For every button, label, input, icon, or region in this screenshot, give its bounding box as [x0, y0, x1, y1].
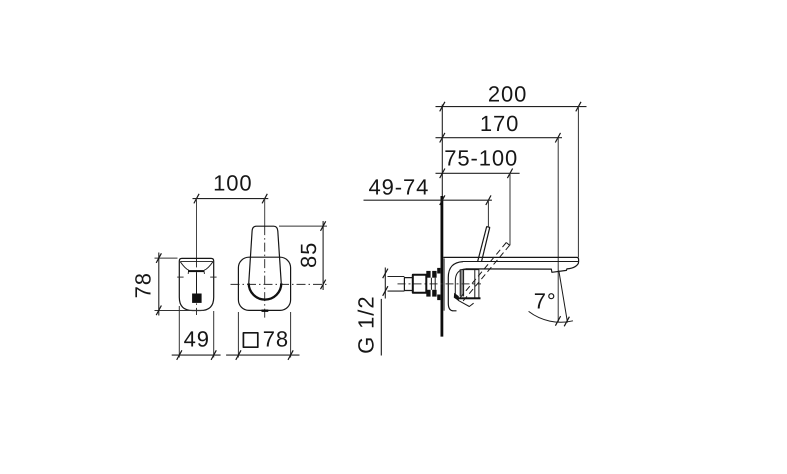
- dimension 49: [172, 306, 221, 360]
- hex nut small: [404, 278, 412, 291]
- spout second line: [463, 261, 578, 263]
- wall flange blocks: [437, 268, 440, 300]
- side view handle cup: [180, 261, 213, 274]
- side view handle stem: [196, 272, 198, 293]
- svg-text:170: 170: [480, 111, 519, 136]
- svg-text:100: 100: [213, 170, 252, 195]
- dimension 200: [436, 82, 587, 258]
- svg-text:49-74: 49-74: [369, 174, 430, 199]
- side view handle outline: [179, 258, 213, 310]
- svg-text:49: 49: [184, 326, 210, 351]
- inlet centerline: [398, 283, 482, 285]
- plate bottom center marker: [262, 310, 269, 312]
- svg-text:78: 78: [131, 272, 156, 298]
- 7 degree angle: [529, 271, 573, 327]
- set screw mark: [458, 300, 474, 306]
- dashed lever tip cap: [506, 243, 509, 246]
- escutcheon plate front: [238, 257, 290, 310]
- cartridge internals: [460, 270, 479, 298]
- spout outline: [443, 257, 578, 272]
- body outer contour and plate profile: [444, 258, 463, 311]
- svg-text:85: 85: [296, 242, 321, 268]
- side view pivot square: [192, 294, 202, 303]
- inner fillet: [455, 269, 465, 297]
- centerline side view: [196, 199, 198, 315]
- svg-text:7°: 7°: [534, 288, 557, 313]
- dimension 75-100: [436, 146, 520, 246]
- wall line: [441, 105, 443, 337]
- cartridge bottom bar: [454, 293, 481, 301]
- dimension square 78: [226, 312, 299, 360]
- G 1/2 dimension: [353, 268, 388, 356]
- union nut large: [413, 275, 427, 293]
- svg-text:200: 200: [488, 82, 527, 107]
- solid lever side view: [478, 227, 490, 262]
- horizontal centerline front view: [231, 283, 327, 285]
- side view horizontal centerline dashes: [177, 276, 216, 278]
- svg-text:75-100: 75-100: [444, 146, 518, 171]
- centerline front view: [264, 199, 266, 318]
- dimension 85: [279, 221, 327, 290]
- svg-text:G 1/2: G 1/2: [353, 296, 378, 354]
- dimension 100: [193, 170, 269, 203]
- dashed lever open position: [458, 243, 510, 304]
- svg-text:78: 78: [263, 326, 289, 351]
- thread blocks: [426, 271, 436, 297]
- lever front: [249, 226, 282, 299]
- dimension 170: [436, 111, 563, 322]
- dimension 49-74: [364, 174, 492, 226]
- inlet pipe: [388, 277, 405, 292]
- dimension 78: [131, 253, 204, 316]
